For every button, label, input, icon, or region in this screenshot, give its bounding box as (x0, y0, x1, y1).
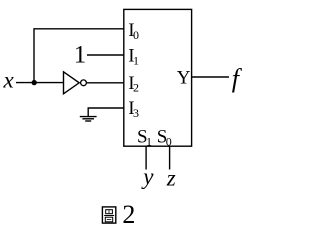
svg-text:y: y (141, 164, 154, 189)
svg-text:Y: Y (177, 68, 191, 89)
svg-text:x: x (3, 68, 15, 93)
svg-text:1: 1 (74, 41, 87, 68)
svg-text:z: z (166, 166, 176, 191)
svg-text:2: 2 (133, 81, 139, 95)
svg-text:1: 1 (133, 53, 139, 67)
svg-text:2: 2 (122, 200, 135, 229)
svg-text:1: 1 (146, 134, 152, 148)
svg-text:f: f (232, 64, 243, 93)
svg-text:3: 3 (133, 106, 139, 120)
svg-text:0: 0 (166, 134, 172, 148)
svg-text:0: 0 (133, 28, 139, 42)
